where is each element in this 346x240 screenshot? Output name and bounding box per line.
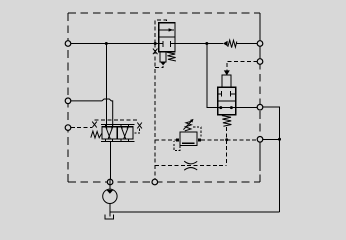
enclosure left border	[67, 13, 69, 182]
node junction dot J5	[278, 138, 281, 141]
port circle L2	[65, 98, 71, 104]
orifice restrictor arcs	[184, 161, 197, 170]
directional valve V4 pilot dashed from L3	[71, 127, 92, 129]
directional valve V4 lower parallel line	[101, 140, 134, 142]
port circle R3	[257, 104, 263, 110]
sequence valve V2 port dots	[219, 106, 222, 109]
unloading valve V1 pilot actuator box	[160, 52, 166, 62]
enclosure bottom border	[68, 181, 260, 183]
wire pump outlet down	[109, 204, 111, 217]
port circle B2	[152, 179, 158, 185]
unloading valve V1 pilot line top	[155, 20, 166, 44]
directional valve V4 spring left	[91, 131, 102, 138]
unloading valve V1 position divider	[159, 36, 175, 38]
enclosure right border solid part	[259, 13, 261, 62]
unloading valve V1 blocked ports	[159, 41, 175, 47]
relief valve V3 body	[180, 132, 197, 146]
wire R4 to riser	[263, 138, 280, 140]
wire from J1 down to valve V4	[105, 44, 107, 127]
enclosure right border lower part	[259, 139, 261, 182]
directional valve V4 left cell arrows	[106, 127, 113, 139]
node junction dot J1	[105, 42, 108, 45]
port circle L3	[65, 125, 71, 131]
wire right outer riser	[263, 107, 280, 212]
wire orifice drain dashed line	[155, 165, 227, 167]
relief valve V3 bottom pilot loop	[174, 141, 180, 150]
directional valve V4 right X dashed elbow	[133, 129, 140, 134]
relief valve V3 adjust arrow	[183, 121, 191, 130]
unloading valve V1 body	[159, 23, 175, 52]
unloading valve V1 flow path line	[159, 29, 174, 31]
directional valve V4 port stubs	[106, 124, 129, 141]
sequence valve V2 pilot line from R2	[227, 62, 257, 71]
sequence valve V2 drain dashed	[226, 127, 228, 140]
relief valve V3 spring	[185, 121, 192, 131]
port circle R1	[257, 41, 263, 47]
directional valve V4 body	[102, 127, 133, 139]
sequence valve V2 position divider	[218, 100, 236, 102]
sequence valve V2 spring	[222, 116, 232, 127]
wire from L2 with crossover hop	[71, 99, 113, 127]
wire from valve V4 bottom to pump	[109, 141, 111, 179]
port circle R2	[257, 59, 263, 65]
directional valve V4 left X mark	[92, 122, 97, 128]
directional valve V4 right X mark	[137, 123, 142, 129]
directional valve V4 top dashed link	[95, 119, 140, 121]
node junction dot J2	[154, 42, 157, 45]
sequence valve V2 body	[218, 87, 236, 115]
port circle R4	[257, 137, 263, 143]
tank T1	[105, 215, 114, 220]
wire pump to B1	[109, 185, 111, 190]
enclosure right border dashed part	[259, 62, 261, 140]
unloading valve V1 spring	[167, 52, 176, 61]
node junction dot J3	[205, 42, 208, 45]
directional valve V4 upper parallel line	[101, 123, 134, 125]
wire pilot dashed branch to actuator	[155, 66, 163, 68]
sequence valve V2 blocked ports top cell	[218, 91, 236, 96]
relief valve V3 internal bar	[182, 142, 194, 144]
wire main pressure line P	[68, 43, 257, 45]
wire pilot dashed vertical from J2 to bottom	[154, 44, 156, 180]
relief valve V3 right port dot	[198, 138, 201, 141]
sequence valve V2 flow path bottom cell	[218, 107, 236, 109]
wire line from sequence valve to port R3	[236, 107, 257, 109]
relief valve V3 left port dot	[176, 138, 179, 141]
wire line from J3 to sequence valve	[207, 44, 218, 108]
directional valve V4 divider	[116, 127, 118, 139]
sequence valve V2 pilot box	[222, 75, 231, 87]
port circle L1	[65, 41, 71, 47]
directional valve V4 right cell arrows	[121, 127, 128, 139]
relief valve V3 top pilot elbow	[193, 127, 201, 138]
check valve V5 spring	[228, 40, 237, 48]
port circle B1	[107, 179, 113, 185]
unloading valve V1 flow arrow head	[169, 28, 174, 31]
unloading valve V1 pilot actuator triangle	[160, 62, 166, 66]
wire pump return line to right	[110, 211, 280, 213]
wire pilot dashed line y140	[155, 139, 257, 141]
pump P1 circle	[103, 189, 117, 203]
check valve V5 poppet arrow	[223, 41, 228, 46]
wire dashed from J4 down to orifice line	[226, 140, 228, 166]
node junction dot J4	[225, 138, 228, 141]
enclosure top border	[68, 12, 260, 14]
pump P1 triangle	[106, 190, 113, 194]
unloading valve V1 pilot X mark	[153, 49, 158, 55]
sequence valve V2 pilot triangle	[224, 70, 230, 75]
